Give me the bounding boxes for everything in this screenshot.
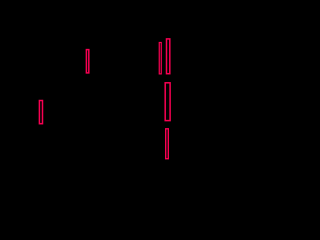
resistor R1 [39, 101, 42, 124]
resistor R3 [159, 43, 161, 74]
resistor R6 [166, 129, 169, 159]
resistor R5 [165, 83, 170, 121]
resistor R4 [167, 39, 170, 74]
resistor R2 [86, 50, 88, 73]
